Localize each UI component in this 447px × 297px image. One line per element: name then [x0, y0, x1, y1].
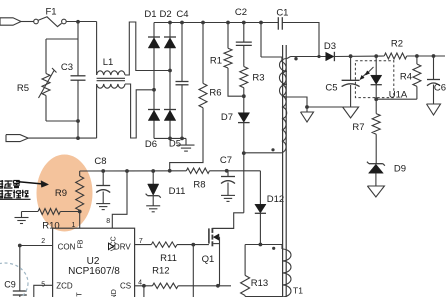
svg-text:D1: D1 [144, 9, 156, 20]
svg-text:FB: FB [78, 239, 85, 248]
svg-text:C6: C6 [434, 83, 446, 94]
svg-text:CT: CT [77, 292, 84, 297]
svg-text:C9: C9 [4, 280, 16, 290]
svg-text:D7: D7 [221, 112, 233, 123]
svg-text:R5: R5 [17, 83, 29, 94]
svg-text:D3: D3 [324, 41, 336, 52]
svg-text:R6: R6 [209, 88, 221, 99]
svg-text:R11: R11 [160, 253, 177, 264]
svg-text:R8: R8 [193, 180, 205, 191]
svg-text:C3: C3 [61, 62, 73, 73]
svg-text:D6: D6 [145, 139, 157, 150]
svg-text:D2: D2 [160, 9, 172, 20]
svg-text:1: 1 [72, 222, 76, 229]
svg-text:R3: R3 [252, 73, 264, 84]
svg-text:NCP1607/8: NCP1607/8 [68, 266, 120, 277]
svg-text:2: 2 [41, 238, 45, 245]
svg-text:CON: CON [58, 243, 76, 252]
svg-text:L1: L1 [103, 57, 114, 68]
svg-text:ZCD: ZCD [56, 282, 73, 291]
svg-text:7: 7 [139, 238, 143, 245]
svg-text:Q1: Q1 [202, 254, 215, 265]
svg-text:R13: R13 [251, 278, 268, 289]
svg-text:R1: R1 [210, 56, 222, 67]
svg-text:R7: R7 [352, 122, 364, 133]
svg-text:R4: R4 [400, 72, 412, 83]
svg-text:R12: R12 [152, 266, 169, 277]
svg-text:D11: D11 [169, 186, 186, 197]
svg-text:T1: T1 [293, 286, 303, 296]
svg-text:GND: GND [111, 289, 118, 297]
svg-text:R2: R2 [391, 39, 403, 50]
svg-text:C2: C2 [235, 7, 247, 18]
svg-text:D5: D5 [169, 139, 181, 150]
svg-text:R10: R10 [42, 221, 59, 232]
svg-text:C8: C8 [94, 156, 106, 167]
svg-text:8: 8 [106, 218, 110, 225]
svg-text:C1: C1 [276, 7, 288, 18]
svg-text:C4: C4 [176, 9, 188, 20]
svg-text:CS: CS [120, 282, 131, 291]
svg-text:R9: R9 [55, 188, 67, 199]
svg-text:F1: F1 [45, 7, 56, 18]
svg-text:D9: D9 [394, 164, 406, 175]
svg-text:D12: D12 [267, 194, 284, 205]
svg-text:DRV: DRV [114, 242, 131, 251]
svg-text:C5: C5 [325, 83, 337, 94]
svg-text:C7: C7 [220, 155, 232, 166]
